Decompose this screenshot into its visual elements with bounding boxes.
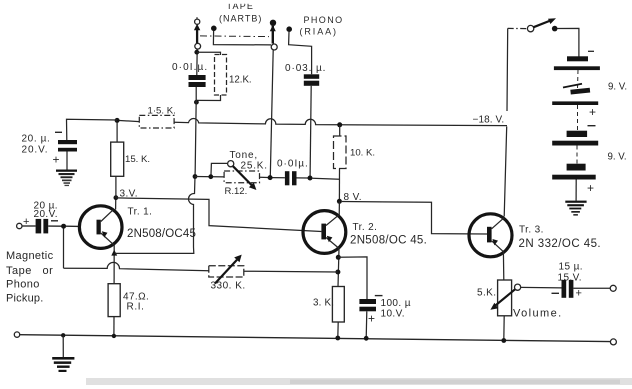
svg-text:R.12.: R.12. bbox=[225, 186, 248, 197]
svg-text:10.V.: 10.V. bbox=[381, 309, 405, 320]
scan artifact grey band bbox=[86, 378, 632, 385]
node 47ohm bottom on rail bbox=[112, 334, 116, 338]
svg-text:0·03. µ.: 0·03. µ. bbox=[285, 63, 326, 74]
transistor Tr2 emitter lead bbox=[326, 238, 339, 249]
potentiometer 5K wiper arm bbox=[490, 289, 515, 310]
ground symbol below C 20u bbox=[56, 170, 77, 187]
wire 15K bottom to 3V node bbox=[115, 176, 117, 197]
wire 12K bottom branch bbox=[197, 95, 221, 101]
svg-text:20.V.: 20.V. bbox=[34, 209, 58, 220]
label 5K bbox=[477, 288, 496, 299]
wire 10K bottom to 8V node bbox=[338, 169, 340, 202]
wire phono contact to C 0.03 bbox=[289, 32, 312, 75]
potentiometer R12 25K Tone box bbox=[224, 171, 259, 183]
capacitor C 15u 15V plates bbox=[562, 280, 574, 298]
wire R12 to series cap node bbox=[260, 176, 269, 178]
label 15K bbox=[125, 154, 150, 165]
svg-text:Tone,: Tone, bbox=[230, 150, 258, 161]
wire switch contact to battery top bbox=[557, 28, 579, 56]
label 0.03u bbox=[285, 63, 326, 74]
svg-text:2N508/OC 45.: 2N508/OC 45. bbox=[350, 234, 427, 246]
svg-text:+: + bbox=[587, 181, 594, 195]
svg-text:9. V.: 9. V. bbox=[608, 82, 627, 93]
potentiometer R12 wiper terminal bbox=[228, 161, 234, 167]
transistor Tr2 circle bbox=[303, 211, 346, 254]
wire 10K top to rail bbox=[339, 125, 341, 136]
label + of C 100u bbox=[368, 312, 375, 326]
battery B2 cell2 long plate bbox=[552, 175, 596, 180]
ground symbol battery bbox=[565, 201, 586, 216]
transistor Tr1 emitter arrow bbox=[102, 231, 108, 237]
label Volume bbox=[513, 308, 563, 320]
resistor 15K bbox=[111, 142, 124, 176]
wire node to series cap bbox=[272, 177, 285, 179]
label Tone 25K bbox=[230, 150, 268, 172]
node 8V bbox=[337, 199, 342, 204]
label Tr3 bbox=[519, 224, 602, 250]
wire 5K bottom to rail bbox=[503, 316, 505, 341]
wire Tr3 emitter down to volume pot bbox=[502, 252, 504, 280]
svg-text:20. µ.: 20. µ. bbox=[22, 134, 51, 145]
svg-text:2N 332/OC 45.: 2N 332/OC 45. bbox=[519, 238, 602, 250]
capacitor C 0.03u plates bbox=[304, 74, 319, 85]
label 15u 15V bbox=[558, 261, 583, 283]
label TAPE bbox=[222, 0, 260, 11]
wire C 15u to output terminal bbox=[573, 287, 610, 289]
node 3V bbox=[114, 195, 119, 200]
resistor 10K bbox=[334, 136, 347, 169]
wire wiper to junction bbox=[211, 163, 227, 174]
wire 47ohm bottom to ground rail bbox=[113, 317, 115, 336]
label Tr1 bbox=[127, 207, 196, 241]
wire 8V node down to Tr2 collector bbox=[338, 201, 340, 216]
label 20u 20V bbox=[34, 200, 58, 220]
wire series cap to phono node bbox=[297, 177, 309, 179]
ground terminal bottom-left bbox=[14, 332, 19, 337]
power switch contact bbox=[552, 26, 558, 32]
potentiometer 5K wiper terminal bbox=[515, 284, 521, 290]
wire C 100u bottom to rail bbox=[365, 311, 368, 338]
switch coupling dash-dot line bbox=[200, 35, 269, 38]
wire S1b pivot down to tone node bbox=[270, 50, 273, 176]
wire phono node to Tr2 collector line bbox=[313, 178, 340, 179]
battery B1 cell1 short plate bbox=[567, 56, 588, 61]
wire 3V node to Tr2 base (horizontal then down then right) bbox=[116, 198, 322, 232]
switch S1b pivot bbox=[271, 44, 277, 50]
svg-text:+: + bbox=[53, 153, 60, 167]
node tone wiper junction bbox=[208, 174, 213, 179]
transistor Tr3 collector lead bbox=[492, 218, 504, 229]
node phono line junction bbox=[308, 176, 313, 181]
label 12K bbox=[229, 75, 252, 86]
transistor Tr3 emitter lead bbox=[492, 241, 504, 252]
svg-text:+: + bbox=[23, 216, 29, 228]
node R12 right junction bbox=[268, 175, 273, 180]
svg-text:15. K.: 15. K. bbox=[125, 154, 150, 165]
wire supply node to 1.5K bbox=[120, 121, 140, 122]
wire tone node to R12 bbox=[195, 176, 224, 178]
label + of B2 bbox=[587, 181, 594, 195]
transistor Tr3 circle bbox=[469, 214, 512, 257]
node 10K top bbox=[337, 122, 342, 127]
svg-text:R.I.: R.I. bbox=[127, 302, 145, 313]
transistor Tr1 base bar bbox=[97, 220, 101, 235]
wire feedback Tr2 emitter to 330K with hop over Tr1 emitter bbox=[64, 262, 338, 272]
wire base node down to feedback bbox=[63, 229, 65, 269]
switch S1a pivot bbox=[195, 43, 201, 49]
label - of C 20u top-left bbox=[55, 131, 62, 133]
wire Tr2 emitter down bbox=[338, 249, 339, 287]
svg-text:100. µ: 100. µ bbox=[381, 298, 411, 309]
switch S1a alternate contact bbox=[211, 26, 217, 32]
label 330K bbox=[211, 281, 246, 292]
wire bottom ground rail bbox=[20, 335, 611, 342]
label -18V bbox=[473, 114, 505, 125]
wire input to C-in bbox=[22, 225, 36, 227]
label - of C-in bbox=[51, 220, 58, 222]
node supply branch left bbox=[115, 118, 120, 123]
label NARTB bbox=[219, 14, 262, 24]
label 10K bbox=[350, 148, 375, 159]
node ground branch bbox=[61, 333, 65, 337]
wire wiper to C 15u bbox=[521, 286, 562, 289]
label PHONO bbox=[304, 15, 344, 25]
svg-text:+: + bbox=[576, 288, 582, 300]
node 12K top junction bbox=[194, 50, 199, 55]
resistor 47ohm R1 bbox=[108, 284, 120, 317]
input terminal (signal) bbox=[17, 223, 22, 228]
node Tr2 emitter bypass junction bbox=[336, 255, 341, 260]
wire supply rail 1.5K to -18V corner with hops bbox=[174, 119, 507, 126]
svg-text:Tr. 1.: Tr. 1. bbox=[128, 207, 153, 218]
label 3V bbox=[120, 189, 138, 200]
battery B2 minus mark bbox=[588, 125, 596, 127]
wire feedback line down from C 0.01 to tone node with hop at 3V wire bbox=[115, 87, 196, 253]
svg-text:330. K.: 330. K. bbox=[211, 281, 246, 292]
ground symbol bottom-left bbox=[52, 357, 74, 372]
capacitor C 100u 10V plates bbox=[359, 299, 376, 311]
switch S1a top contact bbox=[195, 17, 200, 24]
label 3K bbox=[313, 297, 334, 308]
label 0.01u feedback bbox=[172, 62, 208, 73]
node 12K bottom junction bbox=[194, 100, 199, 105]
transistor Tr2 collector lead bbox=[326, 215, 339, 226]
svg-text:15.V.: 15.V. bbox=[558, 272, 582, 283]
power switch dash-dot wire bbox=[508, 27, 527, 29]
label 9V B2 bbox=[608, 152, 627, 163]
battery connector dash 3 bbox=[576, 146, 578, 164]
switch S1a arm with arrow bbox=[194, 24, 200, 44]
switch S1b arm with arrow bbox=[270, 25, 276, 44]
wire 15K top to supply node bbox=[116, 122, 118, 142]
node Tr2 emitter feedback junction bbox=[335, 270, 340, 275]
node phono contact bbox=[286, 26, 292, 32]
svg-text:10. K.: 10. K. bbox=[350, 148, 375, 159]
wire C-in to base node bbox=[48, 225, 62, 227]
transistor Tr1 circle bbox=[79, 206, 122, 249]
svg-text:+: + bbox=[368, 312, 375, 326]
node 5K bottom on rail bbox=[501, 338, 506, 343]
wire 8V node to Tr3 base bbox=[342, 202, 487, 235]
battery B1 cell1 long plate bbox=[554, 66, 600, 70]
battery B1 minus mark bbox=[588, 50, 594, 52]
output terminal top bbox=[610, 285, 616, 291]
potentiometer 330K box bbox=[209, 266, 244, 277]
node 3K bottom on rail bbox=[335, 336, 340, 341]
battery connector dash 2 bbox=[577, 105, 579, 131]
label Tr2 bbox=[350, 222, 427, 246]
wire 12K top branch bbox=[197, 52, 221, 55]
label - of C 100u bbox=[375, 295, 383, 297]
label + of C 20u top-left bbox=[53, 153, 60, 167]
wire Tr1 collector up to 3V node bbox=[115, 196, 117, 210]
svg-text:+: + bbox=[589, 105, 596, 119]
transistor Tr3 base bar bbox=[487, 227, 492, 243]
label + of C-in bbox=[23, 216, 29, 228]
battery B1 cell2 short plate bbox=[563, 84, 590, 95]
svg-text:9. V.: 9. V. bbox=[608, 152, 627, 163]
node tone wire left junction bbox=[193, 174, 198, 179]
wire -18V line from switch to rail corner and Tr3 collector bbox=[504, 28, 508, 216]
wire base node to Tr1 bbox=[66, 225, 80, 227]
svg-text:20.V.: 20.V. bbox=[22, 145, 49, 156]
wire supply node to C 20u top-left bbox=[67, 119, 118, 140]
capacitor C 0.01u series plates bbox=[285, 171, 297, 185]
node base of Tr1 bbox=[61, 224, 66, 229]
svg-text:0·0Iµ.: 0·0Iµ. bbox=[277, 159, 309, 170]
output terminal bottom bbox=[610, 339, 616, 345]
potentiometer R12 wiper arm bbox=[233, 166, 257, 190]
label RIAA bbox=[300, 27, 338, 37]
wire S1a contact to S1b pivot bbox=[213, 31, 271, 45]
svg-text:0·0I.µ.: 0·0I.µ. bbox=[172, 62, 208, 73]
label + of B1 bbox=[589, 105, 596, 119]
wire C 20u to ground bbox=[66, 152, 68, 170]
svg-text:Magnetic: Magnetic bbox=[6, 250, 54, 262]
label - of C 15u bbox=[552, 292, 560, 294]
label Magnetic Tape or Phono Pickup bbox=[6, 250, 54, 304]
label 8V bbox=[344, 192, 362, 203]
svg-text:(NARTB): (NARTB) bbox=[219, 14, 262, 24]
label + of C 15u bbox=[576, 288, 582, 300]
label 1.5K bbox=[148, 106, 176, 117]
wire S1a pivot down to C 0.01 bbox=[196, 49, 198, 75]
svg-text:Volume.: Volume. bbox=[513, 308, 563, 320]
wire 3K bottom to rail bbox=[337, 322, 339, 338]
svg-text:−18. V.: −18. V. bbox=[473, 114, 505, 125]
battery B2 cell2 short plate bbox=[567, 164, 586, 171]
transistor Tr2 base bar bbox=[321, 224, 326, 240]
svg-text:Tr. 2.: Tr. 2. bbox=[353, 222, 378, 233]
power switch lever with arrow bbox=[534, 18, 556, 27]
wire junction to C 100u bbox=[338, 257, 367, 299]
svg-text:12.K.: 12.K. bbox=[229, 75, 252, 86]
label 47ohm R1 bbox=[123, 292, 149, 313]
capacitor C-in 20u 20V bbox=[36, 219, 49, 234]
svg-text:PHONO: PHONO bbox=[304, 15, 344, 25]
svg-text:Tr. 3.: Tr. 3. bbox=[519, 224, 544, 235]
potentiometer 330K arrow bbox=[215, 255, 242, 284]
svg-text:3. K.: 3. K. bbox=[313, 297, 334, 308]
node C 100u bottom on rail bbox=[364, 336, 369, 341]
transistor Tr1 emitter wire down with arrow bbox=[111, 245, 117, 284]
battery B2 cell1 short plate bbox=[567, 131, 588, 137]
transistor Tr3 emitter arrow bbox=[492, 239, 498, 245]
label 0.01u series bbox=[277, 159, 309, 170]
label R12 bbox=[225, 186, 248, 197]
capacitor C 0.01u feedback plates bbox=[189, 75, 206, 87]
label 100u 10V bbox=[381, 298, 411, 320]
svg-text:Pickup.: Pickup. bbox=[6, 293, 43, 305]
resistor 1.5K bbox=[139, 115, 174, 128]
wire C 0.03 down to tone node bbox=[310, 86, 311, 176]
battery B1 cell2 long plate bbox=[552, 101, 598, 105]
svg-text:2N508/OC45: 2N508/OC45 bbox=[127, 228, 196, 240]
svg-text:Phono: Phono bbox=[6, 278, 40, 290]
transistor Tr2 emitter arrow bbox=[327, 236, 333, 242]
potentiometer 5K volume box bbox=[498, 280, 512, 316]
transistor Tr1 collector lead bbox=[101, 210, 114, 222]
svg-text:5.K.: 5.K. bbox=[477, 288, 496, 299]
svg-text:15 µ.: 15 µ. bbox=[559, 261, 583, 272]
switch S1b top contact bbox=[270, 20, 276, 26]
power switch pivot bbox=[527, 25, 533, 31]
resistor 3K bbox=[332, 287, 344, 323]
wire ground branch down bbox=[62, 335, 64, 357]
resistor 12K bbox=[215, 55, 227, 96]
battery B2 cell1 long plate bbox=[552, 141, 598, 146]
wire battery bottom to ground bbox=[575, 180, 577, 201]
capacitor C 20u 20V top-left plates bbox=[58, 140, 77, 152]
battery connector dash bbox=[577, 70, 580, 89]
svg-text:25.K.: 25.K. bbox=[241, 161, 268, 172]
svg-text:(RIAA): (RIAA) bbox=[300, 27, 338, 37]
label 9V B1 bbox=[608, 82, 627, 93]
svg-text:Tape or: Tape or bbox=[6, 265, 53, 277]
transistor Tr1 emitter lead bbox=[101, 233, 114, 245]
label 20u 20V top-left bbox=[22, 134, 51, 156]
